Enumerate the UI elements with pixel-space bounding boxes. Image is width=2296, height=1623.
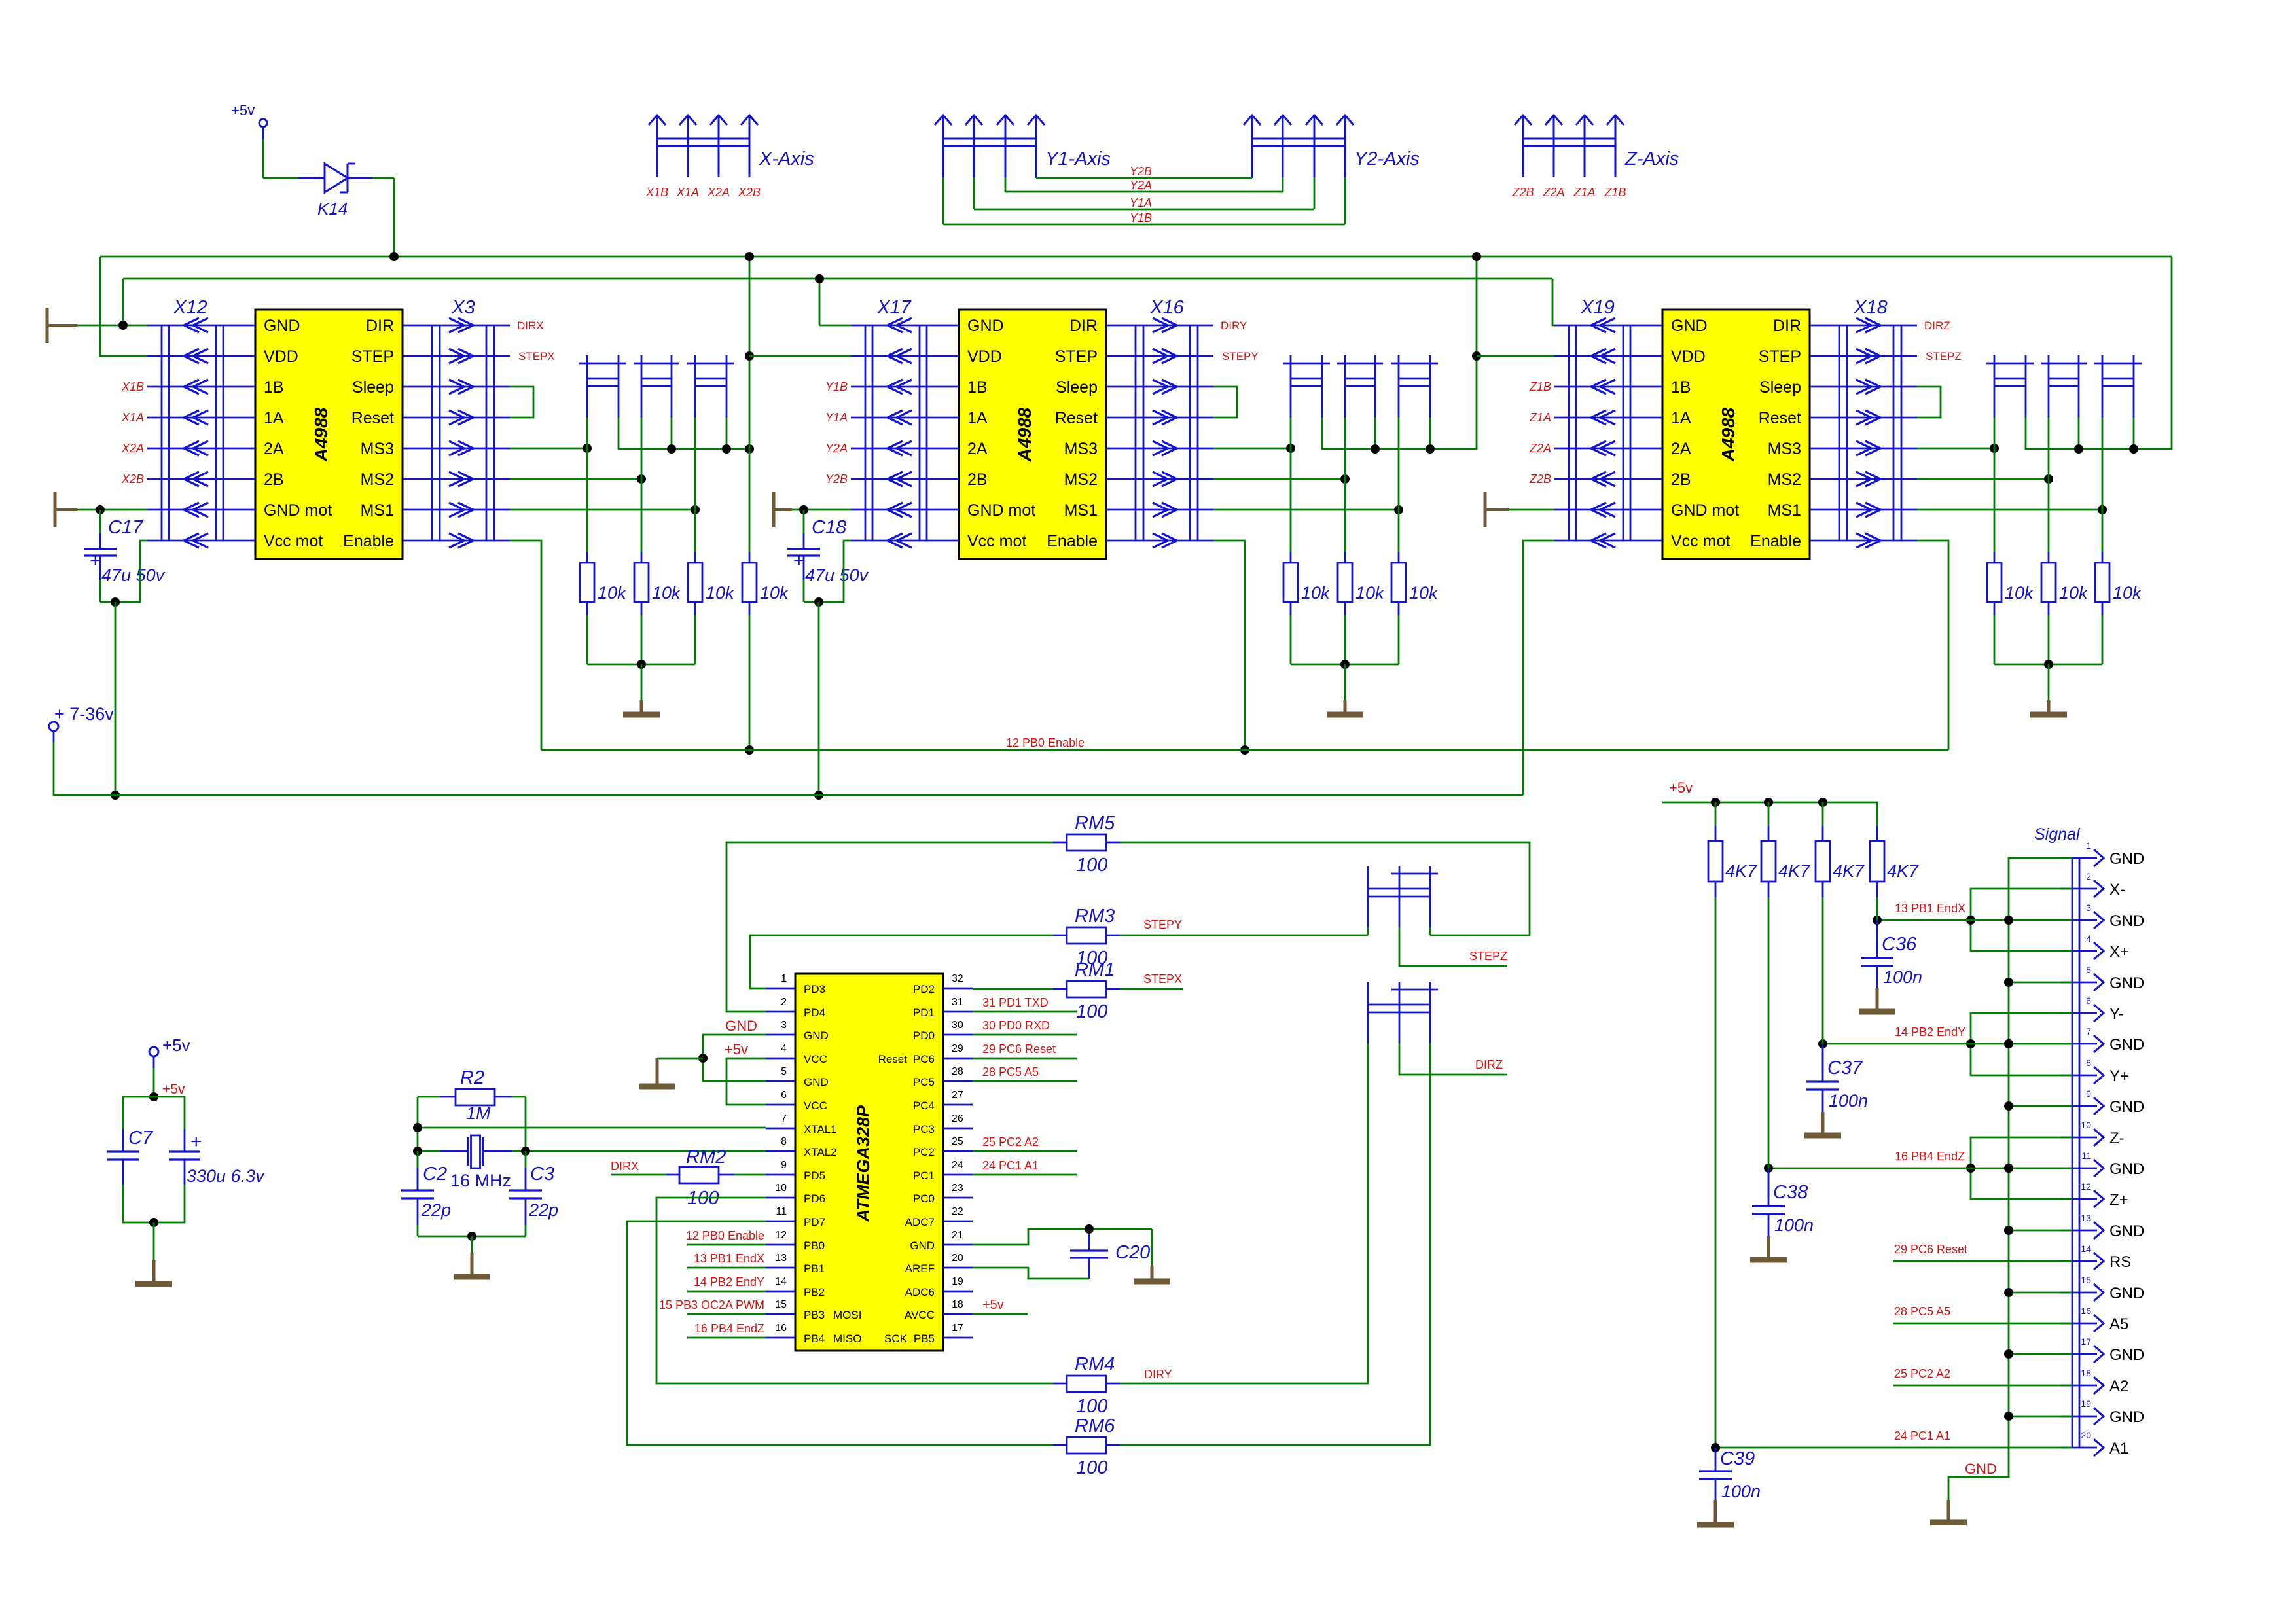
ground block3 pulldowns	[2030, 664, 2067, 715]
pin 16 A5	[2060, 1306, 2128, 1333]
junction SJ3 pad	[722, 444, 731, 454]
svg-text:Z1A: Z1A	[1529, 411, 1551, 424]
svg-text:Z2A: Z2A	[1529, 442, 1551, 455]
svg-text:GND: GND	[910, 1240, 935, 1252]
svg-text:2: 2	[781, 997, 787, 1008]
capacitor C38 100n	[1750, 1168, 1814, 1260]
svg-text:PB3: PB3	[804, 1309, 825, 1321]
svg-text:MS3: MS3	[1064, 440, 1098, 458]
junction Z gnd	[2004, 1164, 2013, 1173]
junction GND rail block2	[815, 274, 824, 283]
junction +5v comb	[1818, 798, 1827, 807]
junction pulldown bus	[637, 660, 646, 669]
svg-text:+5v: +5v	[162, 1082, 185, 1097]
pin 14 RS	[2060, 1243, 2131, 1271]
wire +5v top rail	[100, 256, 2172, 258]
ground U4 pin21	[1134, 1229, 1170, 1281]
svg-text:10k: 10k	[760, 583, 789, 603]
junction signal GND	[2004, 978, 2013, 987]
svg-text:PC0: PC0	[913, 1192, 935, 1205]
svg-text:18: 18	[952, 1299, 963, 1310]
junction block1 GND	[118, 321, 128, 330]
svg-text:RM5: RM5	[1075, 813, 1115, 834]
svg-text:GND: GND	[2109, 1285, 2144, 1302]
jumper pads SJ2	[634, 355, 679, 418]
svg-text:17: 17	[2081, 1336, 2091, 1347]
capacitor C3 22p	[509, 1151, 558, 1236]
junction MS1 / SJ9	[2098, 505, 2107, 514]
svg-text:4K7: 4K7	[1725, 861, 1757, 881]
svg-text:GND: GND	[2109, 1408, 2144, 1426]
svg-text:Y1A: Y1A	[1130, 196, 1152, 209]
svg-text:2B: 2B	[264, 471, 284, 489]
svg-text:19: 19	[2081, 1399, 2091, 1409]
jumper pads SJ2	[2041, 355, 2087, 418]
wire block3 MS1 row	[1917, 509, 2102, 511]
svg-text:1A: 1A	[967, 409, 988, 427]
svg-text:Z1A: Z1A	[1573, 186, 1595, 199]
svg-text:GND mot: GND mot	[967, 501, 1035, 520]
svg-text:Enable: Enable	[1047, 532, 1098, 550]
svg-text:X1B: X1B	[121, 380, 144, 393]
junction signal GND	[2004, 1101, 2013, 1111]
wire block2 GND-mot row	[792, 509, 851, 511]
svg-text:1A: 1A	[1671, 409, 1691, 427]
svg-text:VDD: VDD	[264, 348, 298, 366]
svg-text:XTAL1: XTAL1	[804, 1123, 837, 1135]
svg-text:PC5: PC5	[913, 1076, 935, 1088]
svg-text:Reset: Reset	[878, 1053, 908, 1065]
svg-text:PD4: PD4	[804, 1007, 825, 1019]
svg-text:C39: C39	[1720, 1448, 1755, 1469]
svg-text:+5v: +5v	[162, 1035, 190, 1055]
wire +7-36v feed	[54, 742, 115, 795]
junction Y pair	[1966, 1039, 1975, 1048]
wire block2 Vcc-mot leg	[804, 541, 851, 602]
svg-text:GND mot: GND mot	[1671, 501, 1739, 520]
junction MS2 / SJ2	[637, 474, 646, 484]
svg-text:GND: GND	[2109, 974, 2144, 992]
svg-text:STEPZ: STEPZ	[1469, 950, 1507, 963]
svg-text:28 PC5 A5: 28 PC5 A5	[982, 1065, 1039, 1079]
svg-text:RM3: RM3	[1075, 906, 1115, 927]
pin 7 GND	[2060, 1026, 2144, 1054]
resistor RM3 100	[1053, 906, 1120, 969]
svg-text:100n: 100n	[1829, 1091, 1868, 1111]
wire Y2B	[1036, 177, 1252, 178]
svg-text:C37: C37	[1827, 1058, 1863, 1079]
wire block1 MS3 row	[510, 448, 587, 450]
wire Vcc motor rail	[115, 794, 1523, 796]
wire AREF net	[973, 1268, 1089, 1279]
svg-text:Reset: Reset	[351, 409, 394, 427]
wire +5v comb	[726, 1058, 766, 1105]
svg-text:9: 9	[781, 1160, 787, 1171]
resistor RM2 100	[611, 1147, 766, 1209]
svg-text:C7: C7	[128, 1128, 154, 1149]
svg-text:RM2: RM2	[686, 1147, 726, 1168]
connector Y1-Axis	[935, 115, 1111, 177]
svg-text:MS2: MS2	[1064, 471, 1098, 489]
svg-text:A4988: A4988	[1014, 407, 1035, 462]
svg-text:12: 12	[775, 1230, 787, 1241]
junction MS1 / SJ6	[1394, 505, 1403, 514]
svg-text:C2: C2	[423, 1164, 447, 1185]
junction XTAL2 right	[521, 1147, 530, 1156]
pin stubs U4	[766, 988, 973, 1338]
svg-text:GND: GND	[2109, 1222, 2144, 1240]
junction Y cap	[1818, 1039, 1827, 1048]
svg-text:14: 14	[775, 1276, 787, 1287]
junction enable rail block2	[1240, 745, 1249, 755]
svg-text:GND: GND	[1671, 317, 1708, 335]
svg-text:31 PD1 TXD: 31 PD1 TXD	[982, 996, 1049, 1009]
svg-text:STEPZ: STEPZ	[1926, 350, 1962, 363]
svg-text:MS2: MS2	[361, 471, 394, 489]
svg-text:12 PB0 Enable: 12 PB0 Enable	[1006, 736, 1085, 749]
svg-text:10k: 10k	[2005, 583, 2034, 603]
wire crystal ground bus	[418, 1236, 526, 1238]
svg-text:10k: 10k	[2059, 583, 2089, 603]
svg-text:16 MHz: 16 MHz	[450, 1171, 511, 1190]
net label 15 PB3 OC2A PWM	[659, 1298, 766, 1314]
junction crystal ground	[467, 1232, 476, 1241]
junction signal GND	[2004, 1349, 2013, 1359]
svg-text:DIR: DIR	[366, 317, 394, 335]
svg-text:4K7: 4K7	[1833, 861, 1865, 881]
svg-text:31: 31	[952, 997, 963, 1008]
svg-text:VDD: VDD	[967, 348, 1002, 366]
wire GND pin21 net	[973, 1229, 1152, 1251]
junction signal GND	[2004, 1412, 2013, 1421]
svg-text:PC6: PC6	[913, 1053, 935, 1065]
svg-text:X19: X19	[1580, 297, 1615, 318]
svg-text:18: 18	[2081, 1368, 2091, 1378]
svg-text:X1A: X1A	[676, 186, 699, 199]
net label 29 PC6 Reset	[973, 1043, 1077, 1058]
svg-text:X2B: X2B	[121, 473, 144, 486]
svg-text:C20: C20	[1115, 1242, 1150, 1263]
wire +5v to K14	[263, 139, 298, 178]
svg-text:GND: GND	[967, 317, 1004, 335]
junction X cap	[1873, 916, 1882, 925]
svg-text:PD7: PD7	[804, 1216, 825, 1228]
pin 4 X+	[2060, 933, 2129, 961]
svg-text:MISO: MISO	[833, 1332, 861, 1345]
connector X16	[1106, 297, 1213, 548]
svg-text:RS: RS	[2109, 1253, 2131, 1271]
capacitor C20	[1070, 1242, 1150, 1279]
wire XTAL2 net	[418, 1097, 766, 1151]
svg-text:A4988: A4988	[1718, 407, 1738, 462]
wire 4K7 endx drop	[1876, 897, 1878, 920]
wire Y2A	[1005, 177, 1283, 192]
svg-text:PD2: PD2	[913, 983, 935, 995]
junction SJ8 pad	[2074, 444, 2083, 454]
junction GND comb	[698, 1054, 708, 1063]
junction C7 top	[149, 1092, 158, 1101]
svg-text:10: 10	[775, 1183, 787, 1194]
svg-text:ADC7: ADC7	[905, 1216, 935, 1228]
svg-text:30 PD0 RXD: 30 PD0 RXD	[982, 1019, 1050, 1032]
svg-text:X+: X+	[2109, 943, 2129, 961]
wire pad leads	[2079, 418, 2134, 449]
svg-text:17: 17	[952, 1323, 963, 1334]
wire Sleep-Reset link	[510, 387, 533, 418]
net label 28 PC5 A5	[973, 1065, 1077, 1081]
wire Z pair	[1971, 1137, 2072, 1199]
net label 25 PC2 A2	[1893, 1367, 2072, 1385]
resistor 4K7	[1816, 802, 1865, 897]
svg-text:100n: 100n	[1883, 967, 1922, 987]
svg-text:5: 5	[781, 1066, 787, 1077]
junction X pair	[1966, 916, 1975, 925]
svg-text:PB5: PB5	[914, 1332, 935, 1345]
ground signal GND	[1930, 1461, 1997, 1522]
junction Z pair	[1966, 1164, 1975, 1173]
svg-text:100: 100	[1076, 1457, 1107, 1478]
svg-text:STEP: STEP	[1055, 348, 1098, 366]
svg-text:STEP: STEP	[351, 348, 394, 366]
junction A1 C39	[1711, 1443, 1720, 1452]
connector X-Axis	[649, 115, 814, 177]
wire RM4 to PD6	[656, 1198, 1053, 1383]
svg-text:3: 3	[781, 1020, 787, 1031]
svg-text:ADC6: ADC6	[905, 1286, 935, 1298]
net label 28 PC5 A5	[1893, 1305, 2072, 1323]
resistor 10k	[634, 418, 681, 664]
net label 30 PD0 RXD	[973, 1019, 1077, 1035]
svg-text:VCC: VCC	[804, 1053, 827, 1065]
wire RM1 to PD2	[973, 988, 1053, 990]
svg-text:10k: 10k	[2113, 583, 2142, 603]
svg-text:5: 5	[2086, 965, 2091, 975]
op-amp U4 ATMEGA328P microcontroller	[795, 974, 943, 1351]
svg-text:X16: X16	[1149, 297, 1184, 318]
svg-text:R2: R2	[460, 1067, 484, 1088]
wire block1 +5v pad rail	[619, 418, 749, 449]
svg-text:PD1: PD1	[913, 1007, 935, 1019]
pin 3 GND	[2060, 902, 2144, 930]
resistor 10k	[1987, 418, 2034, 664]
svg-text:16 PB4 EndZ: 16 PB4 EndZ	[1895, 1150, 1965, 1163]
wire block1 MS2 row	[510, 478, 641, 480]
svg-text:2A: 2A	[967, 440, 988, 458]
wire 4K7 endz drop	[1768, 897, 1770, 1168]
node +5v terminal	[231, 102, 267, 139]
svg-text:29 PC6 Reset: 29 PC6 Reset	[982, 1043, 1056, 1056]
svg-text:PB1: PB1	[804, 1262, 825, 1275]
svg-text:VDD: VDD	[1671, 348, 1706, 366]
junction +5v rail drop	[745, 252, 754, 261]
junction C17 top	[96, 505, 105, 514]
svg-text:X2A: X2A	[121, 442, 144, 455]
svg-text:+: +	[190, 1131, 202, 1152]
wire block1 GND-mot row	[77, 509, 147, 511]
wire block3 VDD row	[1477, 355, 1554, 357]
capacitor C36 100n	[1859, 920, 1922, 1012]
wire Z end row	[1768, 1168, 2072, 1169]
svg-text:X2B: X2B	[738, 186, 761, 199]
wire K14 cathode to +5v rail	[372, 178, 394, 257]
ground block1 pulldowns	[623, 664, 660, 715]
wire block1 Vcc-mot leg	[100, 541, 147, 602]
pin 1 GND	[2060, 840, 2144, 868]
svg-text:RM1: RM1	[1075, 959, 1115, 980]
svg-text:10k: 10k	[598, 583, 627, 603]
svg-text:8: 8	[2086, 1058, 2091, 1068]
svg-text:MS1: MS1	[1064, 501, 1098, 520]
net label +5v AVCC	[973, 1298, 1028, 1314]
svg-text:C18: C18	[812, 517, 846, 538]
wire DIRZ jumper to RM6	[1120, 1043, 1430, 1445]
svg-text:GND: GND	[264, 317, 300, 335]
svg-text:13 PB1 EndX: 13 PB1 EndX	[694, 1252, 764, 1265]
svg-text:25 PC2 A2: 25 PC2 A2	[982, 1135, 1039, 1149]
net label 24 PC1 A1	[1715, 1429, 2072, 1448]
svg-text:2A: 2A	[264, 440, 284, 458]
svg-text:MOSI: MOSI	[833, 1309, 861, 1321]
svg-text:10k: 10k	[1355, 583, 1385, 603]
wire pad leads	[672, 418, 726, 449]
junction block2 VDD tap	[745, 351, 754, 361]
ground block3 GND-mot row	[1484, 492, 1487, 527]
junction Vcc rail block2	[814, 791, 823, 800]
svg-text:16: 16	[775, 1323, 787, 1334]
svg-text:X12: X12	[173, 297, 207, 318]
resistor 10k	[2095, 418, 2142, 664]
svg-text:12 PB0 Enable: 12 PB0 Enable	[686, 1229, 764, 1242]
svg-text:Vcc mot: Vcc mot	[967, 532, 1026, 550]
wire block3 pulldown bus	[1994, 664, 2102, 666]
net label 16 PB4 EndZ	[687, 1322, 766, 1338]
svg-text:1A: 1A	[264, 409, 284, 427]
junction C17 bottom	[111, 597, 120, 607]
junction signal GND	[2004, 1288, 2013, 1297]
net label STEPX	[1120, 972, 1183, 989]
wire block2 MS1 row	[1213, 509, 1399, 511]
svg-text:1B: 1B	[264, 378, 284, 397]
jumper pads SJ2	[1337, 355, 1383, 418]
capacitor C8 330u 6.3v	[169, 1129, 265, 1186]
svg-text:C3: C3	[530, 1164, 554, 1185]
jumper pads SJ3	[1391, 355, 1438, 418]
pin 6 Y-	[2060, 995, 2124, 1023]
pin numbers U4	[775, 973, 963, 1334]
svg-text:2B: 2B	[1671, 471, 1691, 489]
svg-text:13 PB1 EndX: 13 PB1 EndX	[1895, 902, 1965, 915]
diode K14	[298, 164, 372, 219]
svg-text:28: 28	[952, 1066, 963, 1077]
svg-text:23: 23	[952, 1183, 963, 1194]
wire jumper right lead	[1429, 927, 1431, 935]
svg-text:AVCC: AVCC	[905, 1309, 935, 1321]
jumper pads SJ1	[579, 355, 626, 418]
wire block1 pulldown bus	[587, 664, 695, 666]
junction SJ6 pad	[1426, 444, 1435, 454]
connector X19	[1554, 297, 1662, 548]
svg-text:11: 11	[776, 1206, 787, 1217]
wire RM5 to jumper right	[1120, 842, 1530, 935]
svg-text:PC2: PC2	[913, 1146, 935, 1158]
svg-text:Z2B: Z2B	[1529, 473, 1551, 486]
junction XTAL1	[413, 1123, 422, 1132]
svg-text:PC1: PC1	[913, 1169, 935, 1182]
svg-text:Y2A: Y2A	[825, 442, 848, 455]
resistor 10k	[1283, 418, 1331, 664]
svg-text:MS3: MS3	[1768, 440, 1801, 458]
svg-text:+ 7-36v: + 7-36v	[54, 704, 114, 724]
junction MS3 / SJ7	[1990, 444, 1999, 453]
svg-text:10k: 10k	[706, 583, 735, 603]
svg-text:2B: 2B	[967, 471, 988, 489]
connector X12	[147, 297, 255, 548]
svg-text:3: 3	[2086, 902, 2091, 913]
svg-text:DIRY: DIRY	[1144, 1368, 1172, 1381]
capacitor C39 100n	[1697, 1448, 1761, 1525]
svg-text:A5: A5	[2109, 1315, 2128, 1333]
svg-text:1B: 1B	[967, 378, 988, 397]
svg-text:21: 21	[952, 1230, 963, 1241]
junction C7 bottom	[149, 1218, 158, 1227]
svg-text:MS1: MS1	[361, 501, 394, 520]
svg-text:Y1A: Y1A	[825, 411, 848, 424]
wire block3 Enable leg	[1917, 541, 1948, 750]
junction +5v comb	[1711, 798, 1720, 807]
junction C20 top	[1085, 1224, 1094, 1234]
capacitor C17 47u 50v	[84, 510, 166, 602]
svg-text:X2A: X2A	[707, 186, 730, 199]
svg-text:K14: K14	[317, 199, 348, 219]
pin 18 A2	[2060, 1368, 2128, 1395]
junction MS3 / SJ4	[1286, 444, 1295, 453]
svg-text:X17: X17	[876, 297, 912, 318]
svg-text:Y1-Axis: Y1-Axis	[1045, 149, 1111, 169]
svg-text:X18: X18	[1853, 297, 1888, 318]
resistor 10k	[688, 418, 735, 664]
ground block2 GND-mot row	[772, 492, 776, 527]
resistor 10k	[2041, 418, 2089, 664]
net label 14 PB2 EndY	[687, 1275, 766, 1291]
capacitor C2 22p	[401, 1151, 451, 1236]
junction SJ2 pad	[667, 444, 676, 454]
svg-text:7: 7	[2086, 1026, 2091, 1037]
svg-text:1: 1	[2086, 840, 2091, 851]
svg-text:DIRZ: DIRZ	[1475, 1058, 1503, 1071]
svg-text:29: 29	[952, 1043, 963, 1054]
svg-text:VCC: VCC	[804, 1099, 827, 1112]
svg-text:100: 100	[1076, 1396, 1107, 1417]
svg-text:Y-: Y-	[2109, 1005, 2124, 1023]
svg-text:PB2: PB2	[804, 1286, 825, 1298]
svg-text:DIR: DIR	[1773, 317, 1801, 335]
wire block2 MS2 row	[1213, 478, 1345, 480]
svg-text:4K7: 4K7	[1778, 861, 1810, 881]
wire block2 +5v pad rail	[1322, 356, 1477, 449]
svg-text:2: 2	[2086, 871, 2091, 882]
pin 11 GND	[2060, 1150, 2144, 1178]
svg-text:PD5: PD5	[804, 1169, 825, 1182]
wire Y1B	[943, 177, 1345, 224]
svg-text:DIRY: DIRY	[1221, 319, 1247, 332]
svg-text:16 PB4 EndZ: 16 PB4 EndZ	[694, 1322, 764, 1335]
pin 12 Z+	[2060, 1181, 2128, 1209]
svg-text:14 PB2 EndY: 14 PB2 EndY	[694, 1275, 764, 1289]
resistor R2 1M	[418, 1067, 526, 1123]
svg-text:100: 100	[1076, 1001, 1107, 1022]
svg-text:RM6: RM6	[1075, 1416, 1115, 1436]
svg-text:10k: 10k	[652, 583, 681, 603]
